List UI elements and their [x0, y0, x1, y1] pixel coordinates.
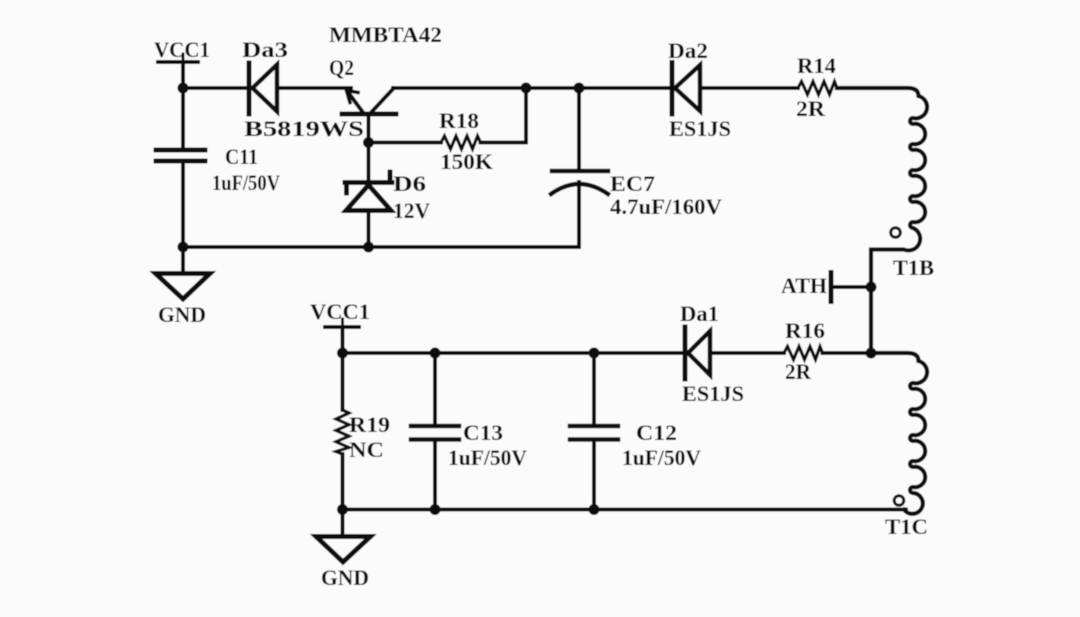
svg-text:ES1JS: ES1JS	[669, 116, 731, 141]
svg-text:GND: GND	[158, 302, 206, 327]
svg-text:VCC1: VCC1	[154, 37, 210, 62]
svg-text:150K: 150K	[440, 149, 493, 174]
svg-text:T1B: T1B	[893, 255, 934, 280]
svg-text:Da1: Da1	[680, 301, 719, 326]
svg-text:VCC1: VCC1	[310, 299, 370, 324]
svg-text:2R: 2R	[785, 359, 812, 384]
svg-text:2R: 2R	[796, 96, 826, 121]
svg-text:1uF/50V: 1uF/50V	[448, 445, 527, 470]
svg-text:R19: R19	[349, 412, 390, 437]
svg-text:R16: R16	[785, 318, 825, 343]
svg-text:R14: R14	[797, 53, 836, 78]
svg-text:T1C: T1C	[885, 514, 928, 539]
svg-text:1uF/50V: 1uF/50V	[622, 445, 701, 470]
svg-text:MMBTA42: MMBTA42	[329, 22, 442, 47]
svg-text:D6: D6	[393, 171, 426, 196]
svg-text:ES1JS: ES1JS	[682, 381, 744, 406]
svg-text:1uF/50V: 1uF/50V	[212, 170, 280, 195]
svg-text:Da3: Da3	[242, 37, 288, 62]
svg-text:4.7uF/160V: 4.7uF/160V	[610, 194, 722, 219]
svg-text:12V: 12V	[393, 198, 430, 223]
svg-text:EC7: EC7	[610, 171, 655, 196]
svg-text:NC: NC	[349, 437, 384, 462]
svg-text:GND: GND	[321, 565, 369, 590]
svg-text:C12: C12	[636, 420, 677, 445]
svg-text:R18: R18	[439, 108, 479, 133]
svg-text:B5819WS: B5819WS	[244, 116, 364, 141]
svg-text:ATH: ATH	[781, 273, 827, 298]
svg-text:C11: C11	[225, 144, 258, 169]
svg-text:Q2: Q2	[329, 55, 354, 80]
svg-text:C13: C13	[463, 420, 503, 445]
svg-text:Da2: Da2	[668, 38, 708, 63]
